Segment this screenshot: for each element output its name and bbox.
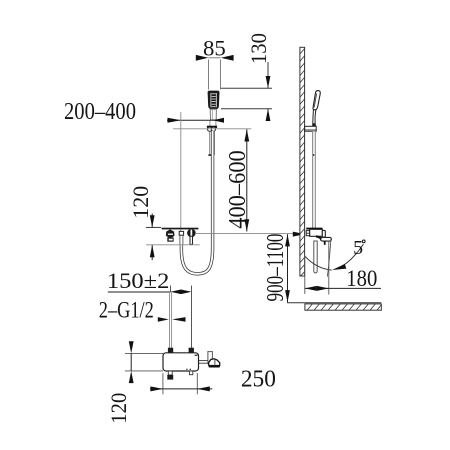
floor hatched slab (305, 304, 381, 310)
svg-text:130: 130 (246, 33, 271, 64)
dimension 130 extension lines (221, 62, 272, 121)
faucet front: mounting bar (162, 228, 199, 230)
slider bracket on bar (207, 126, 217, 128)
svg-text:85: 85 (203, 36, 226, 61)
faucet front: left knob (166, 229, 175, 238)
hose from handle to faucet (U loop) (181, 131, 212, 274)
slider rollers (208, 127, 212, 131)
shower handle side view (313, 110, 316, 127)
dimension 250 line and arrows (150, 388, 212, 390)
5 degree leader arc with arrowhead (336, 244, 363, 269)
faucet side view: body (310, 229, 323, 236)
dimension 120 (front) line, arrows, ticks (146, 214, 161, 261)
top view: handle head (209, 359, 220, 367)
dimension 120 (top view) line and arrows (130, 353, 132, 371)
faucet front: middle outlet (179, 231, 183, 235)
floor line (287, 302, 381, 304)
svg-text:180: 180 (346, 266, 377, 291)
dimension 250 extension lines (162, 373, 164, 394)
dimension 200-400 arrows (168, 118, 225, 123)
svg-text:900–1100: 900–1100 (263, 234, 289, 302)
top view: inlet fittings (168, 348, 173, 353)
svg-text:150±2: 150±2 (107, 268, 170, 293)
dimension 130 arrows (266, 76, 271, 121)
svg-text:400–600: 400–600 (225, 150, 251, 229)
faucet side view: wall fitting (306, 231, 310, 236)
shower head front view (208, 91, 220, 110)
5 degree swing arc (305, 256, 332, 270)
shower head spray window (211, 93, 216, 107)
bar end stop (208, 154, 213, 156)
shower handle front view (210, 109, 216, 120)
extension line at slider level (173, 128, 251, 130)
top view: bottom small port (189, 371, 192, 375)
pipe / hose side view vertical (313, 131, 316, 228)
dimension 900-1100 line and arrows (287, 234, 289, 302)
dimension 180 line and diamond arrows (305, 287, 381, 289)
slide bar below slider (210, 131, 215, 155)
top view: handle stem (199, 360, 209, 362)
dimension 150 extension lines (pipes) (170, 286, 172, 293)
wall section (side view) (300, 47, 305, 276)
5 degree ghost tilt line (327, 239, 331, 277)
svg-text:5: 5 (353, 237, 363, 259)
center line from front view to wall with arrow (195, 232, 295, 234)
svg-text:200–400: 200–400 (64, 99, 136, 125)
svg-text:120: 120 (106, 393, 131, 424)
wall hatching (300, 49, 305, 276)
hose tube below faucet side view (314, 241, 317, 273)
dimension 400-600 line and arrows (246, 129, 248, 231)
dimension 120 (top view) extension lines (125, 352, 163, 354)
wall bracket side view (305, 126, 317, 131)
svg-text:120: 120 (128, 186, 153, 219)
2-G1/2 pointer arrows (158, 317, 186, 322)
left supply pipe (169, 292, 171, 348)
top view: handle post (208, 352, 213, 364)
faucet side view: bend to lever (316, 236, 321, 240)
faucet side view: lever (321, 237, 332, 241)
dimension 85 extension lines (209, 58, 221, 90)
svg-text:2–G1/2: 2–G1/2 (99, 297, 154, 323)
top view: faucet body (163, 353, 199, 371)
shower head side view (313, 91, 320, 110)
faucet side view: right knob (322, 230, 325, 237)
dimension 200-400 leader line (167, 119, 224, 121)
top view: bottom-left outlet (168, 371, 172, 375)
dimension 150 diamond arrows (171, 290, 192, 295)
svg-text:250: 250 (241, 366, 276, 392)
dimension 85 line and arrows (196, 55, 234, 61)
dimension 180 extension lines (304, 255, 306, 294)
extension line from hose outlet up (180, 112, 182, 231)
faucet front: right knob (187, 229, 196, 238)
faucet side view: tab under lever (324, 241, 326, 245)
